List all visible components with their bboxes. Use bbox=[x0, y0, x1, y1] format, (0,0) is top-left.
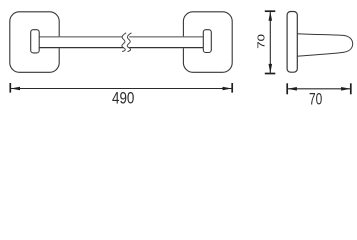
bottom 70 dimension: right arrowhead bbox=[341, 87, 350, 91]
svg-text:70: 70 bbox=[255, 34, 267, 49]
break squiggle left bbox=[122, 33, 126, 52]
bottom 70 dimension: right extension tick bbox=[350, 83, 352, 94]
bar top line (right segment) bbox=[129, 36, 203, 38]
side view: vertical 70 dimension line bbox=[269, 11, 271, 73]
side view: tapered arm and bar end cap bbox=[297, 34, 353, 57]
left post ferrule (inner rounded rect) bbox=[31, 30, 40, 53]
side view: down arrowhead bbox=[269, 64, 273, 73]
bar bottom line (right segment) bbox=[129, 47, 203, 49]
dimension 490: right arrowhead bbox=[223, 87, 232, 91]
break squiggle right bbox=[127, 33, 131, 52]
side view: bottom extension tick bbox=[265, 73, 276, 75]
side view: top extension tick bbox=[265, 10, 276, 12]
dimension 490: right extension tick bbox=[231, 83, 233, 93]
right wall plate (front view) bbox=[183, 12, 232, 73]
bar body (white fill erasing plate edges where bar crosses) bbox=[39, 36, 203, 48]
side view: up arrowhead bbox=[269, 12, 273, 21]
bottom 70 dimension: dimension line bbox=[287, 88, 351, 90]
dimension 490: left arrowhead bbox=[11, 87, 20, 91]
dimension 490: dimension line bbox=[10, 88, 232, 90]
bar top line (left segment) bbox=[39, 36, 122, 38]
dimension 490: left extension tick bbox=[9, 83, 11, 93]
svg-text:70: 70 bbox=[309, 90, 322, 109]
bottom 70 dimension: left arrowhead bbox=[288, 87, 297, 91]
bottom 70 dimension: left extension tick bbox=[286, 83, 288, 94]
left wall plate (front view) bbox=[10, 12, 59, 73]
right post ferrule (inner rounded rect) bbox=[203, 30, 211, 53]
bar bottom line (left segment) bbox=[39, 47, 124, 49]
svg-text:490: 490 bbox=[112, 89, 134, 108]
side view: wall plate slab bbox=[287, 12, 297, 73]
